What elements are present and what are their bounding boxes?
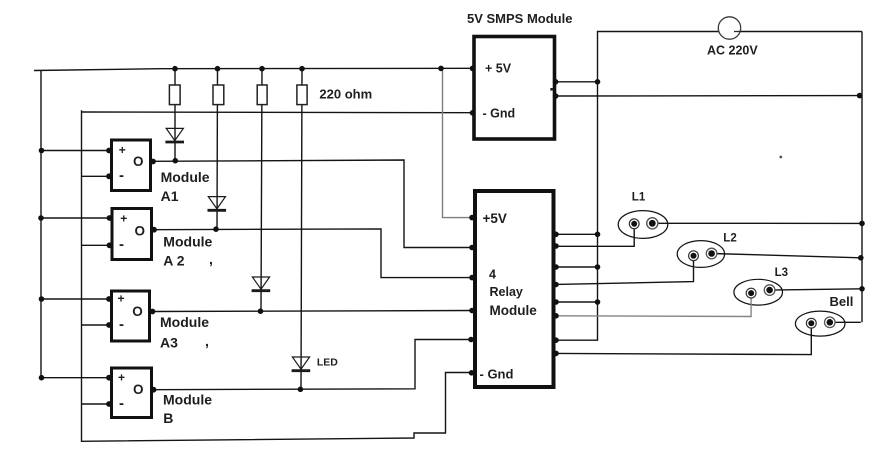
svg-text:A 2: A 2 xyxy=(163,253,184,269)
right rail junction dots xyxy=(857,93,865,292)
svg-text:Relay: Relay xyxy=(490,285,523,299)
module A3 box xyxy=(112,291,150,341)
module A1 box xyxy=(112,140,151,191)
lamp L1 ellipse xyxy=(618,211,668,239)
wire left +5V vertical rail xyxy=(40,71,42,379)
svg-text:-: - xyxy=(119,167,124,184)
lamp L3 ellipse xyxy=(734,279,783,305)
wire A2 output to relay IN2 xyxy=(153,229,472,278)
stray dot top right xyxy=(779,156,782,159)
wire A2 minus input xyxy=(82,244,112,246)
wire +5V feed to relay module xyxy=(443,69,473,218)
svg-text:Bell: Bell xyxy=(830,294,854,309)
diode D2 xyxy=(208,197,227,211)
wire resistor column 3 with diode D3 xyxy=(261,69,262,312)
diode column junction dots xyxy=(173,158,304,392)
wire AC phase riser xyxy=(598,32,863,82)
wire L3 to right rail xyxy=(770,289,862,290)
wire relay to L2 xyxy=(556,256,694,285)
svg-text:Module: Module xyxy=(161,169,210,185)
svg-text:O: O xyxy=(134,223,145,238)
svg-text:Module: Module xyxy=(163,234,212,250)
relay module right contact dots xyxy=(553,232,559,357)
wire A3 minus input xyxy=(82,324,111,326)
wire A1 minus input xyxy=(82,175,111,177)
module A3 terminal dots xyxy=(106,296,155,328)
lamp L2 contacts xyxy=(689,248,717,260)
svg-text:+: + xyxy=(120,212,127,226)
wire resistor column 2 with diode D2 xyxy=(216,69,219,230)
wire relay contact 5 common xyxy=(556,301,598,303)
resistor R3 xyxy=(257,85,267,105)
svg-text:B: B xyxy=(163,410,173,426)
wire L1 to right rail xyxy=(652,222,862,224)
diode D3 xyxy=(252,277,271,291)
wire B plus input xyxy=(41,377,110,379)
wire A3 output to relay IN3 xyxy=(152,311,472,312)
wire SMPS AC terminal 1 xyxy=(555,81,598,83)
resistor R4 xyxy=(297,85,307,105)
SMPS terminal dots xyxy=(470,66,601,116)
module A2 terminal dots xyxy=(107,215,157,248)
lamp L1 contacts xyxy=(629,218,658,229)
wire relay contact 1 common xyxy=(556,233,598,235)
svg-text:220 ohm: 220 ohm xyxy=(319,87,372,102)
wire B minus input xyxy=(82,403,111,405)
wire bell to right rail xyxy=(830,321,861,323)
lamp L2 ellipse xyxy=(677,241,724,268)
wire relay to bell xyxy=(556,323,811,354)
svg-text:+: + xyxy=(119,143,126,157)
module B box xyxy=(112,368,152,418)
svg-text:L1: L1 xyxy=(632,191,646,203)
svg-text:LED: LED xyxy=(317,357,338,369)
svg-text:O: O xyxy=(133,382,144,397)
module B terminal dots xyxy=(106,375,156,407)
diode D1 xyxy=(165,128,184,142)
svg-text:-: - xyxy=(119,236,124,253)
wire relay contact 3 common xyxy=(556,266,598,268)
module A1 terminal dots xyxy=(106,148,156,180)
wire B output to relay IN4 xyxy=(153,340,471,390)
lamp L3 contacts xyxy=(746,285,775,298)
common bus junction dots xyxy=(595,232,601,305)
svg-text:O: O xyxy=(132,304,143,319)
module A2 box xyxy=(112,209,152,260)
svg-text:4: 4 xyxy=(489,267,496,281)
AC source circle xyxy=(718,17,740,39)
svg-text:-: - xyxy=(119,395,124,412)
resistor R1 xyxy=(169,85,180,105)
wire relay to L1 xyxy=(556,224,634,247)
svg-text:Module: Module xyxy=(490,303,538,318)
junction dots top bus xyxy=(172,66,444,72)
svg-text:-: - xyxy=(119,316,124,333)
svg-text:+: + xyxy=(117,292,124,306)
svg-text:L2: L2 xyxy=(723,232,736,244)
relay module left terminal dots xyxy=(468,215,475,376)
svg-text:+ 5V: + 5V xyxy=(485,62,512,76)
SMPS module box xyxy=(474,37,555,140)
junction dots left rail xyxy=(38,148,44,381)
svg-text:- Gnd: - Gnd xyxy=(480,367,514,382)
svg-text:,: , xyxy=(209,251,213,267)
svg-text:,: , xyxy=(205,333,209,349)
svg-text:+: + xyxy=(118,370,125,384)
wire resistor column 1 with diode D1 xyxy=(174,69,176,160)
resistor R2 xyxy=(213,85,224,105)
svg-text:+5V: +5V xyxy=(483,211,507,226)
wire +5V top bus xyxy=(34,68,472,70)
svg-text:Module: Module xyxy=(163,392,212,408)
wire A1 output to relay IN1 xyxy=(152,160,472,248)
wire left gnd vertical rail and bottom return xyxy=(82,110,472,441)
svg-text:A1: A1 xyxy=(161,188,179,204)
stray mark near SMPS xyxy=(550,88,553,91)
svg-text:- Gnd: - Gnd xyxy=(483,107,516,121)
wire L2 to right rail xyxy=(712,254,861,258)
wire gnd horizontal to SMPS xyxy=(82,111,475,114)
bell contacts xyxy=(806,317,835,328)
wire SMPS AC terminal 2 to right rail xyxy=(555,95,861,97)
wire AC right rail xyxy=(861,32,863,323)
wire A3 plus input xyxy=(41,298,110,300)
svg-text:L3: L3 xyxy=(775,267,788,279)
svg-text:O: O xyxy=(133,154,144,169)
relay module box xyxy=(475,191,554,387)
svg-text:AC 220V: AC 220V xyxy=(707,44,758,58)
wire A1 plus input xyxy=(41,150,110,152)
svg-text:Module: Module xyxy=(160,314,209,330)
wire resistor column 4 with LED xyxy=(301,69,302,390)
wire A2 plus input xyxy=(41,217,111,219)
LED diode xyxy=(292,357,311,371)
wire relay common bus xyxy=(556,82,598,340)
bell ellipse xyxy=(795,311,845,336)
svg-text:5V SMPS Module: 5V SMPS Module xyxy=(467,11,572,26)
svg-text:A3: A3 xyxy=(160,335,178,351)
wire relay to L3 xyxy=(556,293,751,316)
